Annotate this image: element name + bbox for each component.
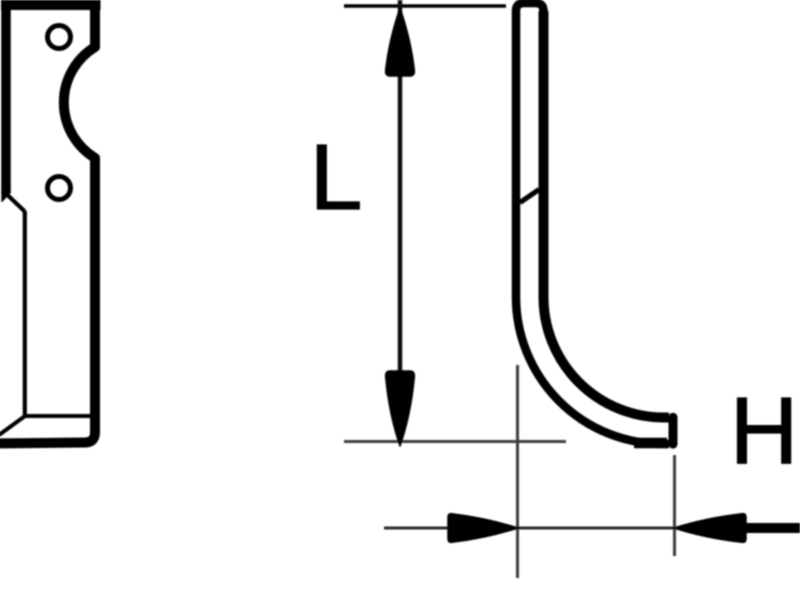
front view left edge [1, 0, 11, 193]
extension line H left [516, 365, 519, 578]
side view bend tick [520, 190, 539, 203]
extension line H right [673, 455, 676, 556]
arrowhead L down [386, 371, 415, 446]
dimension line H thick right [744, 523, 800, 533]
arrowhead H left [674, 514, 746, 543]
extension line bottom (L) [344, 440, 566, 443]
extension line top (L) [344, 4, 506, 8]
front view left edge taper [1, 191, 10, 202]
front view right edge with notch and foot [0, 0, 95, 444]
arrowhead L up [386, 8, 415, 76]
side view tip end cap [669, 413, 678, 449]
side view tip bottom thickening [634, 438, 667, 449]
front view lower left edge [23, 211, 27, 416]
mounting hole upper [48, 26, 71, 49]
arrowhead H right [448, 514, 518, 543]
front view foot left diagonal [0, 416, 25, 435]
dimension line H thin [384, 527, 674, 530]
front view left step diagonal [8, 196, 25, 212]
mounting hole lower [48, 177, 71, 200]
side view blade body [516, 3, 669, 444]
front view foot fold line [25, 414, 92, 418]
svg-text:L: L [310, 125, 363, 229]
front view top edge [1, 0, 101, 10]
svg-text:H: H [730, 378, 799, 484]
dimension line L vertical [398, 0, 403, 374]
side view inner edge [544, 11, 670, 418]
